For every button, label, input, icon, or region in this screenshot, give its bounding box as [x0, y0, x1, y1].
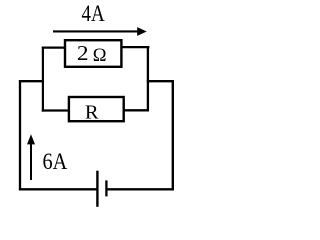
- battery short plate (-): [105, 180, 107, 196]
- wire: bottom left (outer loop to battery): [19, 188, 97, 190]
- wire: outer right vertical: [172, 80, 174, 190]
- battery long plate (+): [96, 171, 98, 207]
- resistor 2-ohm box: [65, 40, 121, 67]
- wire: left bus to R box: [42, 109, 70, 111]
- svg-text:4A: 4A: [82, 1, 106, 26]
- wire: 2-ohm box to right bus: [121, 46, 150, 48]
- svg-text:2: 2: [77, 41, 89, 65]
- svg-text:6A: 6A: [43, 149, 68, 174]
- wire: left bus to 2-ohm box: [42, 46, 66, 48]
- wire: left connector (outer loop to left bus): [19, 80, 44, 82]
- wire: outer left vertical: [19, 80, 21, 190]
- current arrow 6A (pointing up): [27, 134, 35, 180]
- wire: battery to bottom right (outer loop): [106, 188, 174, 190]
- current arrow 4A (pointing right): [53, 27, 147, 36]
- junction bar left (node between parallel branches): [42, 47, 44, 112]
- svg-text:R: R: [85, 101, 99, 123]
- wire: R box to right bus: [123, 109, 149, 111]
- junction bar right (node between parallel branches): [147, 46, 149, 112]
- resistor R box: [69, 97, 124, 121]
- wire: right connector (right bus to outer loop): [147, 80, 174, 82]
- svg-text:Ω: Ω: [93, 46, 107, 66]
